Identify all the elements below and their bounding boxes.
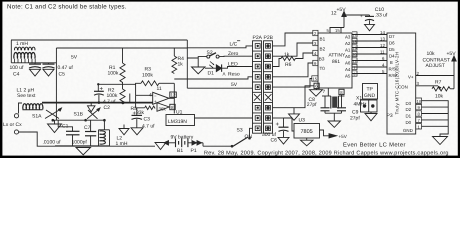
svg-text:12: 12 xyxy=(331,11,337,17)
resistor R4 xyxy=(172,48,184,74)
capacitor C2 xyxy=(94,84,116,111)
svg-text:Truly MTC-C16(20)8/LV-2H: Truly MTC-C16(20)8/LV-2H xyxy=(395,52,400,115)
node dot S1A xyxy=(52,119,55,122)
svg-text:C3: C3 xyxy=(144,117,151,123)
svg-text:0.47 uf: 0.47 uf xyxy=(58,65,74,71)
op-amp U1a xyxy=(136,86,169,104)
wire row R/S xyxy=(352,66,387,68)
wire 5V rail xyxy=(56,47,187,49)
wire row R/W xyxy=(352,73,387,75)
capacitor C1 xyxy=(43,120,80,146)
wire L/C drop column xyxy=(186,40,188,88)
svg-text:D5: D5 xyxy=(389,47,395,52)
svg-text:A1: A1 xyxy=(345,48,351,53)
svg-text:12: 12 xyxy=(380,43,385,48)
svg-text:+: + xyxy=(133,111,137,117)
svg-text:1k: 1k xyxy=(178,62,184,68)
ground (bottom bus) xyxy=(76,148,91,155)
svg-text:Lx or Cx: Lx or Cx xyxy=(3,122,22,128)
ground (crystal bus) xyxy=(328,113,341,127)
svg-text:.33 uf: .33 uf xyxy=(375,12,388,18)
node dot C2 bottom xyxy=(98,101,101,104)
svg-text:18: 18 xyxy=(352,39,356,44)
svg-text:D3: D3 xyxy=(406,101,412,106)
svg-text:11: 11 xyxy=(380,49,385,54)
connector P2B xyxy=(264,35,274,133)
ground (C5) xyxy=(43,69,54,76)
wire P2B row7 to pin6 xyxy=(273,86,315,108)
node dot L2 top xyxy=(103,119,106,122)
svg-text:C7: C7 xyxy=(84,125,91,131)
ground (header) xyxy=(365,114,377,121)
svg-text:36k: 36k xyxy=(159,107,167,112)
svg-text:15: 15 xyxy=(335,28,340,33)
svg-text:E: E xyxy=(390,60,393,65)
capacitor C4 xyxy=(10,63,42,78)
svg-text:7: 7 xyxy=(353,65,355,70)
svg-text:4.7 uf: 4.7 uf xyxy=(142,123,155,129)
capacitor C9 xyxy=(337,108,360,122)
svg-text:1 mH: 1 mH xyxy=(16,41,28,47)
border frame xyxy=(0,0,460,158)
wire U1a output node xyxy=(169,98,174,113)
svg-text:A2: A2 xyxy=(345,41,351,46)
capacitor C3 xyxy=(132,108,156,130)
svg-text:B1: B1 xyxy=(177,148,183,154)
wire L/C top rail xyxy=(11,39,187,41)
ground (C10) xyxy=(365,24,375,30)
wire U1 to P2A xyxy=(195,117,253,119)
wire supply rail to C6/7805 xyxy=(273,117,284,119)
svg-text:S1A: S1A xyxy=(32,114,42,120)
svg-text:R7: R7 xyxy=(435,80,442,86)
svg-text:GND: GND xyxy=(364,93,376,99)
LED D1 xyxy=(205,62,226,77)
potentiometer R7 xyxy=(432,58,454,100)
svg-text:10: 10 xyxy=(417,99,422,104)
svg-text:A4: A4 xyxy=(345,67,351,72)
wire U2 to LCD row D7 xyxy=(352,34,387,36)
svg-text:TP: TP xyxy=(367,87,374,93)
svg-text:C2: C2 xyxy=(104,105,111,111)
svg-text:1000pf: 1000pf xyxy=(72,139,88,145)
wire P2B row2 to B2 xyxy=(273,43,313,56)
node dot C2 top xyxy=(97,83,99,85)
pin 12 box (U1a out) xyxy=(170,92,177,98)
inductor L2 xyxy=(99,120,128,147)
svg-text:ADJUST: ADJUST xyxy=(426,63,445,69)
svg-text:See text: See text xyxy=(17,93,36,99)
svg-text:LED: LED xyxy=(228,61,238,67)
svg-text:Rev. 28 May, 2009. Copyright 2: Rev. 28 May, 2009. Copyright 2007, 2008,… xyxy=(204,150,449,156)
capacitor C5 xyxy=(43,63,74,78)
svg-text:27pf: 27pf xyxy=(307,102,317,108)
ground (7805) xyxy=(301,140,314,146)
svg-text:5V: 5V xyxy=(231,82,238,88)
resistor R3 with feedback loop xyxy=(136,67,175,96)
switch S1B xyxy=(74,108,101,119)
wire node R1/R2/C2 xyxy=(98,83,135,85)
wire 5V drop to switch S1A xyxy=(55,48,57,120)
ground (pin6) xyxy=(310,89,323,97)
svg-text:T0: T0 xyxy=(320,66,326,71)
pin 9 box (XTAL) xyxy=(338,89,344,107)
pin 2 xyxy=(313,30,318,35)
IC U2 ATtiny861 xyxy=(318,33,352,88)
node dot S1B xyxy=(84,119,87,122)
node dot R2 bottom xyxy=(121,101,124,104)
wire Reso row xyxy=(174,77,252,79)
pin 8 box xyxy=(170,104,175,110)
ground (aux) xyxy=(119,129,129,135)
svg-text:11: 11 xyxy=(157,86,162,92)
resistor R5 xyxy=(131,95,156,116)
svg-text:B3: B3 xyxy=(319,57,325,62)
wire row D4 xyxy=(352,53,387,55)
terminal Lx 1 xyxy=(14,114,18,118)
wire terminal2 to bottom rail xyxy=(19,132,155,146)
svg-text:U3: U3 xyxy=(299,117,306,123)
svg-text:+5V: +5V xyxy=(447,51,457,57)
inductor L1 xyxy=(23,104,43,110)
svg-text:ATTINY: ATTINY xyxy=(329,53,347,59)
ground (LCD data) xyxy=(433,137,448,145)
LCD module box xyxy=(387,33,416,134)
svg-text:Note: C1 and C2 should be stab: Note: C1 and C2 should be stable types. xyxy=(7,4,127,11)
wire P2B row3 via R6 to B3 xyxy=(273,59,282,67)
svg-text:A3: A3 xyxy=(345,35,351,40)
wire choke to 5V node xyxy=(11,62,56,64)
capacitor C10 xyxy=(360,7,388,24)
capacitor C7 xyxy=(72,120,97,146)
ground (C4) xyxy=(30,69,41,76)
svg-text:LM319N: LM319N xyxy=(168,119,187,125)
svg-text:D2: D2 xyxy=(406,107,412,112)
regulator 7805 xyxy=(294,124,320,139)
ground (LC line stub) xyxy=(88,106,96,112)
resistor R6 xyxy=(281,52,313,68)
svg-text:17: 17 xyxy=(352,32,356,37)
wire row D5 xyxy=(352,47,387,49)
svg-text:A5: A5 xyxy=(345,74,351,79)
svg-text:861: 861 xyxy=(332,59,340,65)
svg-text:C6: C6 xyxy=(271,138,278,144)
svg-text:10k: 10k xyxy=(435,94,444,100)
test point TP GND xyxy=(363,84,378,100)
svg-text:P1: P1 xyxy=(191,148,197,154)
svg-text:.0100 uf: .0100 uf xyxy=(43,139,62,145)
switch S1A xyxy=(32,108,62,120)
svg-text:L/C: L/C xyxy=(230,42,238,48)
battery B1 xyxy=(164,135,232,155)
svg-text:5V: 5V xyxy=(71,55,78,61)
ground (C3) xyxy=(131,128,143,135)
svg-text:Reso: Reso xyxy=(228,72,240,78)
wire P2B row1 to B1 xyxy=(273,33,313,46)
svg-text:100 uf: 100 uf xyxy=(10,65,25,71)
+5V (contrast) xyxy=(423,51,457,69)
LCD bottom data pins to ground xyxy=(387,98,449,136)
svg-text:P3: P3 xyxy=(387,113,393,119)
svg-text:19: 19 xyxy=(352,45,356,50)
svg-text:13: 13 xyxy=(380,36,385,41)
wire P2B row5 to pin15 xyxy=(273,79,312,88)
crystal X1 xyxy=(331,96,367,109)
pin 15 xyxy=(312,76,318,81)
resistor R1 xyxy=(108,48,126,84)
svg-text:−: − xyxy=(154,93,157,98)
wire L/C to P2A xyxy=(187,46,252,48)
terminal Lx 2 xyxy=(14,130,18,134)
LCD right pins V+/CON xyxy=(416,71,454,86)
svg-text:C5: C5 xyxy=(59,72,66,78)
svg-text:8: 8 xyxy=(353,71,355,76)
pin 6 box xyxy=(314,83,319,89)
U1 label box xyxy=(166,110,195,126)
pin boxes U2 right edge xyxy=(352,32,357,76)
ground (U3 net) xyxy=(289,114,300,120)
svg-text:7805: 7805 xyxy=(301,129,313,135)
wire LC thick line xyxy=(42,102,153,104)
capacitor C6 xyxy=(262,118,289,144)
svg-text:V+: V+ xyxy=(408,74,414,79)
capacitor C8 xyxy=(307,96,330,113)
svg-text:A0: A0 xyxy=(345,54,351,59)
svg-text:Zero: Zero xyxy=(228,51,239,57)
svg-text:D1: D1 xyxy=(406,114,412,119)
svg-text:27pf: 27pf xyxy=(350,116,360,122)
wire row E xyxy=(352,60,387,62)
connector P2A xyxy=(253,35,263,133)
wire P2B row4 to T0 xyxy=(273,63,313,77)
resistor R2 xyxy=(107,84,126,104)
ground (C6) xyxy=(278,137,289,144)
wire C1 C7 L2 bottom bus xyxy=(55,145,110,147)
svg-text:D1: D1 xyxy=(208,71,215,77)
svg-text:GND: GND xyxy=(403,128,413,133)
svg-text:11: 11 xyxy=(352,58,356,63)
svg-text:Even Better LC Meter: Even Better LC Meter xyxy=(343,142,406,149)
svg-text:14: 14 xyxy=(380,30,385,35)
svg-text:D7: D7 xyxy=(389,34,395,39)
pin 7 stub xyxy=(322,88,331,96)
label L/C xyxy=(230,40,241,47)
wire 7805 out +5V xyxy=(320,130,348,139)
svg-text:15: 15 xyxy=(312,76,317,81)
wire switch bottom bus xyxy=(53,119,105,121)
svg-text:P2A: P2A xyxy=(253,35,263,41)
ground (S1A) xyxy=(48,124,62,133)
switch S3 xyxy=(231,127,253,147)
wire U3 gnd stem xyxy=(293,108,295,114)
svg-text:A6: A6 xyxy=(345,61,351,66)
wire 5V row to P2A xyxy=(187,87,252,89)
wire row D6 xyxy=(352,40,387,42)
header 2-pin xyxy=(361,99,378,114)
op-amp U1b xyxy=(157,103,169,112)
wire L1 to terminal xyxy=(19,103,23,114)
svg-text:10k: 10k xyxy=(427,51,436,57)
+5V supply to U2 xyxy=(327,7,370,33)
svg-text:1 mH: 1 mH xyxy=(116,141,128,147)
svg-text:R6: R6 xyxy=(285,62,292,68)
wire crystal ground bus xyxy=(325,112,342,114)
svg-text:+: + xyxy=(360,14,363,19)
pin 9 xyxy=(313,60,318,65)
svg-text:D0: D0 xyxy=(406,120,412,125)
svg-text:C4: C4 xyxy=(13,72,20,78)
svg-text:S1B: S1B xyxy=(74,112,84,118)
ground (D1) xyxy=(192,67,206,74)
switch S2 xyxy=(198,50,219,58)
wire Zero row xyxy=(219,55,252,57)
svg-text:S3: S3 xyxy=(237,127,243,133)
inductor 1mH choke xyxy=(11,40,35,63)
svg-text:+5V: +5V xyxy=(339,134,348,139)
ground (battery) xyxy=(155,143,166,150)
pin 3 xyxy=(313,40,318,45)
wire LED row xyxy=(226,67,253,69)
svg-text:B1: B1 xyxy=(320,37,326,42)
svg-text:100k: 100k xyxy=(142,73,153,79)
svg-text:100k: 100k xyxy=(108,71,119,77)
svg-text:Λ: Λ xyxy=(223,72,226,77)
svg-text:12: 12 xyxy=(171,93,177,98)
pin 4 xyxy=(313,50,318,55)
svg-text:B2: B2 xyxy=(320,47,326,52)
svg-text:P2B: P2B xyxy=(264,35,274,41)
svg-text:D6: D6 xyxy=(389,40,395,45)
